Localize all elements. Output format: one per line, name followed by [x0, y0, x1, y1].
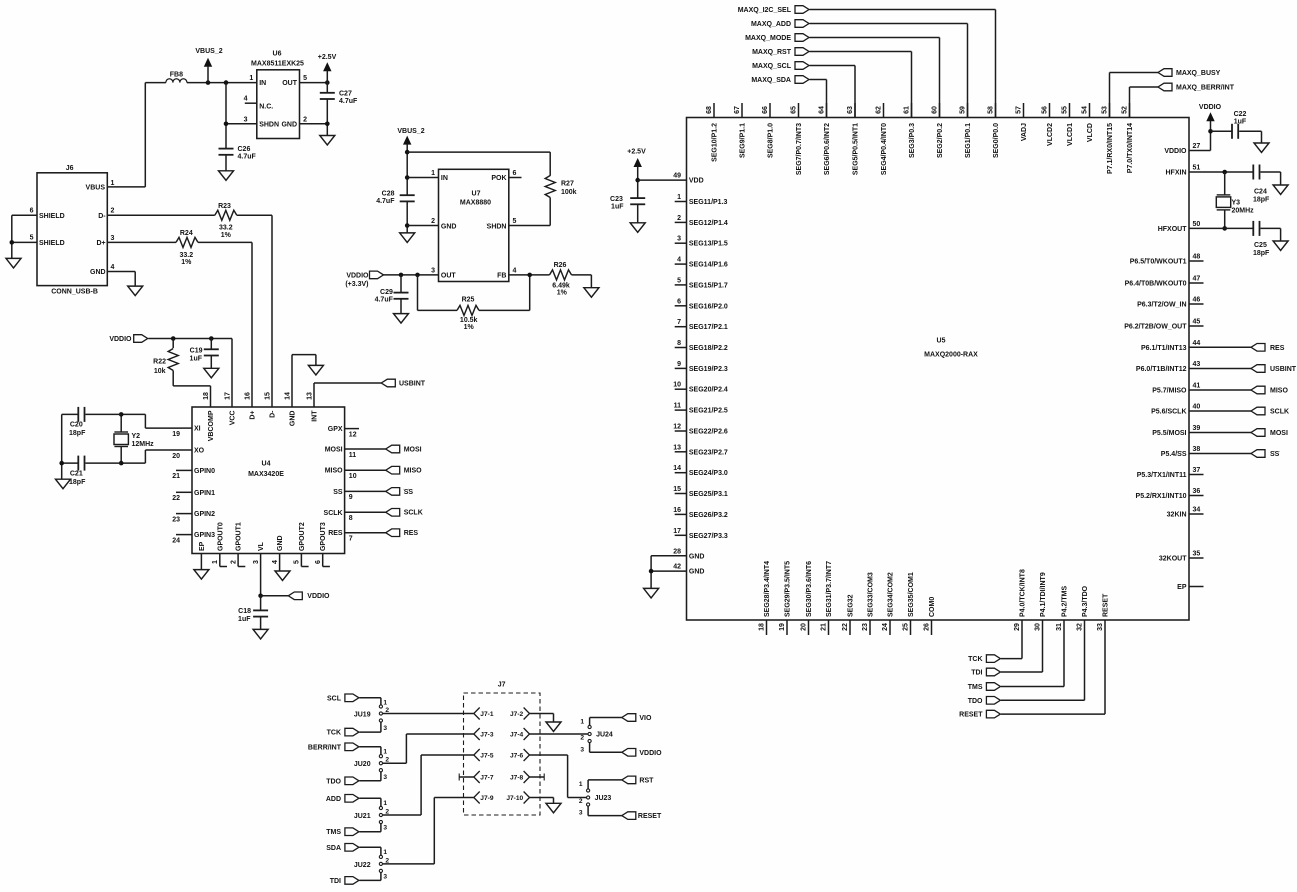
node C29 junction — [399, 273, 404, 278]
svg-text:6.49k: 6.49k — [552, 282, 570, 289]
jumper JU19 pin 3 — [379, 719, 382, 722]
pin 3 SHDN wire — [226, 123, 257, 125]
svg-text:P4.2/TMS: P4.2/TMS — [1062, 586, 1069, 617]
svg-text:P6.0/T1B/INT12: P6.0/T1B/INT12 — [1136, 366, 1187, 373]
svg-text:FB8: FB8 — [170, 71, 183, 78]
pin EP stub — [1189, 586, 1204, 588]
svg-text:43: 43 — [1193, 361, 1201, 368]
node R22 top — [171, 336, 176, 341]
svg-text:MAXQ_BUSY: MAXQ_BUSY — [1176, 70, 1221, 77]
svg-text:SEG14/P1.6: SEG14/P1.6 — [689, 262, 728, 269]
wire TCK to pin — [1001, 658, 1022, 660]
svg-text:SEG9/P1.1: SEG9/P1.1 — [740, 123, 747, 158]
pin 31 P4.2/TMS — [1063, 620, 1065, 635]
svg-text:GND: GND — [90, 269, 106, 276]
svg-text:SEG22/P2.6: SEG22/P2.6 — [689, 429, 728, 436]
svg-text:MOSI: MOSI — [325, 447, 343, 454]
svg-text:5: 5 — [513, 218, 517, 225]
svg-text:60: 60 — [931, 106, 938, 114]
svg-text:8: 8 — [349, 515, 353, 522]
svg-text:64: 64 — [818, 106, 825, 114]
svg-text:14: 14 — [673, 465, 681, 472]
node FB junction — [527, 273, 532, 278]
pin 1 SEG11/P1.3 — [675, 201, 687, 203]
svg-text:58: 58 — [987, 106, 994, 114]
svg-text:3: 3 — [580, 746, 584, 753]
svg-text:18pF: 18pF — [69, 479, 86, 486]
svg-text:VLCD: VLCD — [1087, 123, 1094, 142]
pin 7 RES wire — [345, 532, 386, 534]
svg-text:9: 9 — [677, 361, 681, 368]
capacitor C28 — [400, 194, 415, 196]
wire TMS to pin — [1001, 686, 1064, 688]
svg-text:1%: 1% — [464, 324, 475, 331]
chip U4 MAX3420E body — [192, 407, 345, 554]
svg-text:MAX8511EXK25: MAX8511EXK25 — [251, 60, 304, 67]
svg-text:C29: C29 — [380, 289, 393, 296]
svg-text:20: 20 — [800, 623, 807, 631]
ground below C28 — [400, 233, 415, 243]
svg-text:P5.6/SCLK: P5.6/SCLK — [1151, 409, 1186, 416]
svg-text:P4.3/TDO: P4.3/TDO — [1082, 585, 1089, 617]
svg-text:J7-5: J7-5 — [480, 753, 494, 760]
pin J7-9 — [474, 792, 480, 804]
svg-text:MAXQ_ADD: MAXQ_ADD — [751, 21, 791, 28]
node VDDIO junction — [1208, 129, 1213, 134]
svg-text:GPIN1: GPIN1 — [194, 490, 215, 497]
resistor R25 — [457, 305, 479, 315]
svg-text:27: 27 — [1193, 143, 1201, 150]
wire TDO to pin3 — [359, 780, 381, 782]
svg-text:10.5k: 10.5k — [460, 317, 478, 324]
svg-text:MAX8880: MAX8880 — [460, 200, 491, 207]
wire VDDIO to VCC pin 17 — [231, 339, 233, 408]
svg-text:3: 3 — [383, 725, 387, 732]
svg-text:COM0: COM0 — [929, 597, 936, 617]
svg-text:2: 2 — [431, 218, 435, 225]
svg-text:SEG3/P0.3: SEG3/P0.3 — [909, 123, 916, 158]
svg-text:38: 38 — [1193, 446, 1201, 453]
svg-text:18pF: 18pF — [1253, 197, 1270, 204]
svg-text:3: 3 — [244, 116, 248, 123]
node VL junction — [258, 594, 263, 599]
pin 2 SEG12/P1.4 — [675, 221, 687, 223]
svg-text:VDDIO: VDDIO — [109, 336, 132, 343]
svg-text:13: 13 — [673, 444, 681, 451]
svg-text:D-: D- — [98, 213, 106, 220]
wire HFXIN pin 51 — [1189, 171, 1253, 173]
svg-text:22: 22 — [842, 623, 849, 631]
header J7 dashed outline — [464, 693, 541, 815]
svg-text:SEG29/P3.5/INT5: SEG29/P3.5/INT5 — [785, 561, 792, 617]
wire BERR/INT to pin1 — [359, 746, 381, 748]
svg-text:SEG8/P1.0: SEG8/P1.0 — [768, 123, 775, 158]
jumper JU20 pin 1 — [379, 755, 382, 758]
ground after C25 — [1273, 241, 1288, 251]
svg-text:RES: RES — [1270, 345, 1285, 352]
svg-text:1: 1 — [677, 194, 681, 201]
svg-text:SCLK: SCLK — [324, 510, 343, 517]
svg-text:2: 2 — [111, 207, 115, 214]
svg-text:SEG35/COM1: SEG35/COM1 — [908, 572, 915, 617]
svg-text:68: 68 — [706, 106, 713, 114]
svg-text:RST: RST — [639, 777, 654, 784]
svg-text:TCK: TCK — [327, 730, 341, 737]
net tag RST plain — [622, 776, 636, 784]
svg-text:4: 4 — [513, 267, 517, 274]
svg-text:VBCOMP: VBCOMP — [208, 410, 215, 441]
pin 24 GPIN3 — [176, 534, 192, 536]
pin 46 P6.3/T2/OW_IN — [1189, 303, 1204, 305]
wire GND legs — [650, 556, 652, 589]
svg-text:VDDIO: VDDIO — [307, 593, 330, 600]
svg-text:62: 62 — [875, 106, 882, 114]
svg-text:SCLK: SCLK — [1270, 409, 1289, 416]
svg-text:+2.5V: +2.5V — [318, 54, 337, 61]
svg-text:U7: U7 — [472, 190, 481, 197]
pin 48 P6.5/T0/WKOUT1 — [1189, 260, 1204, 262]
svg-text:P6.2/T2B/OW_OUT: P6.2/T2B/OW_OUT — [1124, 324, 1187, 331]
pin J7-7 stub — [474, 771, 480, 783]
svg-text:1: 1 — [579, 781, 583, 788]
svg-text:TDO: TDO — [968, 698, 983, 705]
wire TMS to pin3 — [359, 831, 381, 833]
pin 4 GND of U4 — [279, 554, 281, 572]
pin 10 MISO wire — [345, 469, 386, 471]
pin 9 SEG19/P2.3 — [675, 367, 687, 369]
svg-text:C27: C27 — [339, 91, 352, 98]
pin 30 P4.1/TDI/INT9 — [1042, 620, 1044, 635]
svg-text:C28: C28 — [382, 191, 395, 198]
pin 6 SEG16/P2.0 — [675, 305, 687, 307]
svg-text:C21: C21 — [70, 470, 83, 477]
pin 5 OUT wire — [300, 82, 328, 84]
svg-text:35: 35 — [1193, 551, 1201, 558]
svg-text:40: 40 — [1193, 404, 1201, 411]
svg-text:5: 5 — [677, 277, 681, 284]
pin 24 SEG34/COM2 — [889, 620, 891, 635]
svg-text:U4: U4 — [262, 460, 271, 467]
pin 2 GPOUT1 — [237, 554, 239, 567]
svg-text:INT: INT — [312, 410, 319, 422]
pin 58 SEG0/P0.0 — [995, 103, 997, 118]
node XI junction — [119, 412, 124, 417]
ground below C26 — [219, 171, 234, 181]
svg-text:1%: 1% — [557, 290, 568, 297]
pin 3 VL wire — [260, 554, 262, 596]
svg-text:P4.1/TDI/INT9: P4.1/TDI/INT9 — [1040, 572, 1047, 617]
svg-text:14: 14 — [285, 392, 292, 400]
jumper JU23 pin 1 — [587, 789, 590, 792]
svg-text:SEG34/COM2: SEG34/COM2 — [888, 572, 895, 617]
svg-text:GPOUT1: GPOUT1 — [236, 522, 243, 551]
svg-text:66: 66 — [762, 106, 769, 114]
net tag MISO at pin 41 — [1189, 389, 1251, 391]
svg-text:15: 15 — [673, 486, 681, 493]
svg-text:C26: C26 — [238, 146, 251, 153]
net tag MISO — [386, 466, 400, 474]
pin 6 POK stub — [509, 177, 522, 179]
pin 12 GPX — [345, 428, 359, 430]
svg-text:SEG7/P0.7/INT3: SEG7/P0.7/INT3 — [796, 123, 803, 175]
svg-text:SEG28/P3.4/INT4: SEG28/P3.4/INT4 — [764, 561, 771, 617]
svg-text:OUT: OUT — [282, 80, 298, 87]
svg-text:4.7uF: 4.7uF — [339, 98, 358, 105]
svg-text:XO: XO — [194, 448, 205, 455]
svg-text:VDDIO: VDDIO — [1199, 104, 1222, 111]
wire J7-4 to JU24 pin2 — [530, 733, 588, 735]
jumper JU23 pin 3 — [587, 803, 590, 806]
svg-text:XI: XI — [194, 426, 201, 433]
svg-text:SDA: SDA — [326, 845, 341, 852]
wire MAXQ_SDA to pin — [810, 79, 827, 81]
svg-text:VADJ: VADJ — [1021, 123, 1028, 141]
wire JU24 pin3 to tag — [589, 743, 591, 753]
pin 29 P4.0/TCK/INT8 — [1021, 620, 1023, 635]
crystal Y2 12MHz — [120, 414, 122, 432]
svg-text:SEG10/P1.2: SEG10/P1.2 — [712, 123, 719, 162]
chip U5 MAXQ2000-RAX body — [687, 118, 1190, 621]
ground shield — [6, 258, 21, 268]
svg-text:16: 16 — [673, 507, 681, 514]
svg-text:SEG1/P0.1: SEG1/P0.1 — [965, 123, 972, 158]
capacitor C25 — [1252, 221, 1254, 236]
svg-text:(+3.3V): (+3.3V) — [345, 281, 368, 288]
capacitor C23 — [630, 197, 645, 199]
svg-text:18: 18 — [758, 623, 765, 631]
wire MAXQ_RST to pin — [810, 51, 912, 53]
wire FB8 to U6 IN — [187, 82, 257, 84]
svg-text:16: 16 — [245, 392, 252, 400]
net tag SS at pin 38 — [1189, 453, 1251, 455]
wire MAXQ_I2C_SEL to pin — [810, 9, 996, 11]
svg-text:1: 1 — [249, 75, 253, 82]
svg-text:1: 1 — [111, 180, 115, 187]
svg-text:J7-10: J7-10 — [506, 795, 523, 802]
svg-text:R25: R25 — [462, 297, 475, 304]
svg-text:TDO: TDO — [326, 778, 341, 785]
svg-text:2: 2 — [303, 116, 307, 123]
svg-text:18pF: 18pF — [69, 430, 86, 437]
svg-text:3: 3 — [111, 235, 115, 242]
pin 10 SEG20/P2.4 — [675, 388, 687, 390]
svg-text:TMS: TMS — [326, 829, 341, 836]
svg-text:1uF: 1uF — [190, 356, 203, 363]
pin 5 SEG15/P1.7 — [675, 284, 687, 286]
svg-text:12: 12 — [349, 431, 357, 438]
pin 49 VDD wire — [638, 179, 687, 181]
pin 62 SEG4/P0.4/INT0 — [883, 103, 885, 118]
svg-text:SEG23/P2.7: SEG23/P2.7 — [689, 449, 728, 456]
svg-text:SHIELD: SHIELD — [39, 213, 65, 220]
pin 8 SEG18/P2.2 — [675, 347, 687, 349]
wire J7-10 to ground — [530, 797, 554, 799]
ground below J6 GND — [128, 286, 143, 296]
wire JU19 pin2 to J7-1 — [383, 713, 474, 715]
node XO junction — [119, 461, 124, 466]
pin 25 SEG35/COM1 — [910, 620, 912, 635]
svg-text:1: 1 — [580, 719, 584, 726]
svg-text:MISO: MISO — [1270, 388, 1288, 395]
svg-text:6: 6 — [677, 298, 681, 305]
svg-text:JU23: JU23 — [595, 795, 612, 802]
svg-text:SS: SS — [333, 489, 343, 496]
svg-text:2: 2 — [677, 215, 681, 222]
jumper JU19 pin 2 — [379, 712, 382, 715]
svg-text:SEG4/P0.4/INT0: SEG4/P0.4/INT0 — [881, 123, 888, 175]
svg-text:59: 59 — [959, 106, 966, 114]
svg-text:TDI: TDI — [330, 878, 341, 885]
svg-text:C18: C18 — [238, 608, 251, 615]
capacitor C19 — [210, 339, 212, 350]
svg-text:RESET: RESET — [1103, 593, 1110, 617]
pin 15 SEG25/P3.1 — [675, 493, 687, 495]
wire JU23 pin1 to tag — [587, 780, 589, 789]
ground below C18 — [253, 629, 268, 639]
svg-text:45: 45 — [1193, 319, 1201, 326]
svg-text:39: 39 — [1193, 425, 1201, 432]
svg-text:SEG26/P3.2: SEG26/P3.2 — [689, 512, 728, 519]
wire TDO to pin — [1001, 699, 1085, 701]
svg-text:MISO: MISO — [325, 468, 343, 475]
svg-text:RES: RES — [328, 530, 343, 537]
svg-text:Y3: Y3 — [1232, 200, 1241, 207]
pin 56 VLCD2 — [1049, 103, 1051, 118]
svg-text:1uF: 1uF — [611, 204, 624, 211]
wire VDDIO pin 27 — [1189, 150, 1211, 152]
connector J6 body — [37, 173, 107, 286]
svg-text:SEG33/COM3: SEG33/COM3 — [868, 572, 875, 617]
svg-text:P4.0/TCK/INT8: P4.0/TCK/INT8 — [1020, 569, 1027, 617]
regulator U6 MAX8511EXK25 body — [257, 70, 300, 139]
svg-text:SEG25/P3.1: SEG25/P3.1 — [689, 491, 728, 498]
svg-text:SS: SS — [404, 489, 414, 496]
svg-text:JU22: JU22 — [354, 862, 371, 869]
svg-text:55: 55 — [1061, 106, 1068, 114]
svg-text:37: 37 — [1193, 467, 1201, 474]
svg-text:1: 1 — [431, 170, 435, 177]
pin J7-5 — [474, 749, 480, 761]
svg-text:GPX: GPX — [328, 426, 343, 433]
wire JU22 pin2 to J7-9 — [383, 863, 435, 865]
svg-text:MISO: MISO — [404, 468, 422, 475]
svg-text:D+: D+ — [250, 411, 257, 420]
pin 3 D+ wire — [107, 241, 176, 243]
svg-text:8: 8 — [677, 340, 681, 347]
net tag RES — [386, 529, 400, 537]
svg-text:24: 24 — [172, 537, 180, 544]
net tag MAXQ_BERR/INT — [1158, 83, 1172, 91]
svg-text:2: 2 — [579, 798, 583, 805]
svg-text:52: 52 — [1121, 106, 1128, 114]
svg-text:J7-8: J7-8 — [510, 775, 524, 782]
svg-text:1: 1 — [383, 849, 387, 856]
svg-text:D-: D- — [270, 410, 277, 418]
wire MAXQ_SCL to pin — [810, 65, 856, 67]
svg-text:SEG11/P1.3: SEG11/P1.3 — [689, 199, 728, 206]
svg-text:P5.7/MISO: P5.7/MISO — [1152, 388, 1187, 395]
node HFXOUT junction — [1222, 226, 1227, 231]
pin 66 SEG8/P1.0 — [769, 103, 771, 118]
svg-text:SEG32: SEG32 — [848, 594, 855, 617]
node VDD junction — [635, 178, 640, 183]
svg-text:54: 54 — [1081, 106, 1088, 114]
svg-text:C23: C23 — [610, 196, 623, 203]
svg-text:67: 67 — [734, 106, 741, 114]
pin 14 SEG24/P3.0 — [675, 472, 687, 474]
svg-text:2: 2 — [580, 735, 584, 742]
svg-text:3: 3 — [383, 774, 387, 781]
wire SCL to pin1 — [359, 697, 381, 699]
svg-text:3: 3 — [383, 873, 387, 880]
svg-text:P5.3/TX1/INT11: P5.3/TX1/INT11 — [1137, 472, 1187, 479]
net tag RES at pin 44 — [1189, 346, 1251, 348]
svg-text:N.C.: N.C. — [259, 103, 273, 110]
svg-text:U6: U6 — [273, 50, 282, 57]
svg-text:12MHz: 12MHz — [132, 441, 155, 448]
net tag VDDIO at VL — [288, 592, 302, 600]
svg-text:TMS: TMS — [968, 684, 983, 691]
svg-text:10: 10 — [673, 382, 681, 389]
svg-text:33: 33 — [1097, 623, 1104, 631]
net tag SCLK at pin 40 — [1189, 410, 1251, 412]
pin 11 SEG21/P2.5 — [675, 409, 687, 411]
pin 4 FB wire — [509, 274, 550, 276]
svg-text:61: 61 — [903, 106, 910, 114]
net tag SS — [386, 488, 400, 496]
wire HFXOUT pin 50 — [1189, 227, 1253, 229]
svg-text:4.7uF: 4.7uF — [238, 154, 257, 161]
pin 26 COM0 — [931, 620, 933, 635]
ground after C24 — [1273, 185, 1288, 195]
pin 17 SEG27/P3.3 — [675, 534, 687, 536]
net tag MOSI at pin 39 — [1189, 432, 1251, 434]
svg-text:GPIN3: GPIN3 — [194, 532, 215, 539]
wire shield vertical — [11, 215, 13, 258]
svg-text:32KOUT: 32KOUT — [1159, 556, 1187, 563]
pin 33 RESET — [1104, 620, 1106, 635]
pin 2 GND wire of U6 — [300, 123, 328, 125]
ground at crystal — [56, 479, 71, 489]
wire R26 to ground — [572, 274, 592, 276]
pin 1 GPOUT0 — [219, 554, 221, 567]
svg-text:3: 3 — [383, 825, 387, 832]
svg-text:26: 26 — [923, 623, 930, 631]
svg-text:MAX3420E: MAX3420E — [248, 471, 284, 478]
svg-text:MAXQ_MODE: MAXQ_MODE — [745, 35, 791, 42]
net tag SCLK — [386, 509, 400, 517]
svg-text:10: 10 — [349, 473, 357, 480]
svg-text:1uF: 1uF — [238, 616, 251, 623]
svg-text:VBUS: VBUS — [86, 185, 106, 192]
svg-text:SEG27/P3.3: SEG27/P3.3 — [689, 533, 728, 540]
wire TCK to pin3 — [359, 731, 381, 733]
wire VL to VDDIO tag — [261, 595, 289, 597]
resistor R26 — [550, 270, 572, 280]
svg-text:SEG21/P2.5: SEG21/P2.5 — [689, 408, 728, 415]
svg-text:VDDIO: VDDIO — [346, 273, 369, 280]
svg-text:J7-3: J7-3 — [480, 732, 494, 739]
svg-text:J7-1: J7-1 — [480, 711, 494, 718]
svg-text:P6.5/T0/WKOUT1: P6.5/T0/WKOUT1 — [1130, 259, 1187, 266]
jumper JU24 pin 3 — [588, 739, 591, 742]
pin 47 P6.4/T0B/WKOUT0 — [1189, 282, 1204, 284]
pin 13 SEG23/P2.7 — [675, 451, 687, 453]
svg-text:24: 24 — [882, 623, 889, 631]
pin 6 GPOUT3 — [322, 554, 324, 567]
svg-text:SEG2/P0.2: SEG2/P0.2 — [937, 123, 944, 158]
pin 8 SCLK wire — [345, 511, 386, 513]
